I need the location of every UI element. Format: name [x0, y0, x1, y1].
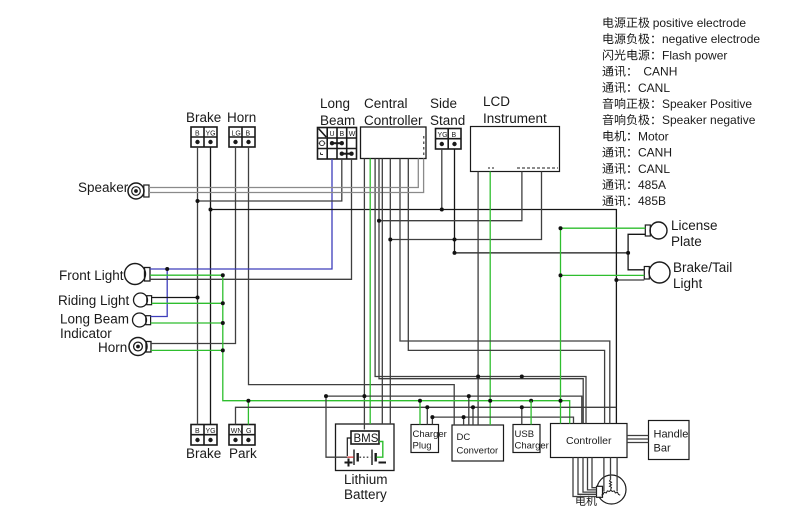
svg-text:Stand: Stand [430, 113, 465, 128]
wire park-G green drop [247, 401, 249, 425]
wire controller pin6 to controller box [400, 159, 610, 424]
wire charger plug gray [426, 407, 428, 424]
svg-text:Battery: Battery [344, 487, 387, 502]
lamp riding light [134, 293, 152, 307]
wire riding light green [152, 302, 223, 304]
wire controller pin4 power rail [379, 159, 583, 424]
svg-text:Central: Central [364, 96, 408, 111]
box controller [551, 424, 628, 458]
wire horn lamp green [151, 349, 223, 351]
svg-text:LCD: LCD [483, 94, 510, 109]
svg-text:Speaker Positive: Speaker Positive [662, 97, 752, 111]
svg-text:CANH: CANH [638, 146, 672, 160]
legend wire color key (CJK as paths) [602, 16, 760, 208]
motor M1 circle [597, 475, 626, 504]
wire charger plug to controller [432, 417, 573, 424]
svg-text:Bar: Bar [654, 443, 671, 455]
svg-text:Charger: Charger [515, 441, 549, 452]
wire controller pin2 green to battery [369, 159, 371, 425]
wire battery positive entry [326, 396, 347, 457]
connector park (pins WN, G) [229, 425, 255, 446]
svg-text:YG: YG [438, 132, 448, 139]
LCD inner pin ticks [488, 167, 496, 169]
svg-text:Side: Side [430, 96, 457, 111]
wire motor phase a [603, 458, 605, 492]
svg-text:WN: WN [231, 428, 243, 435]
box central controller U2 [361, 127, 427, 159]
wire DC pin a [463, 417, 465, 425]
svg-text:CANL: CANL [638, 162, 670, 176]
wire license plate dark + link to brake/tail [628, 234, 645, 269]
battery minus sign [379, 462, 387, 464]
wire DC pin c [472, 407, 474, 425]
svg-text:negative electrode: negative electrode [662, 32, 760, 46]
svg-text:positive electrode: positive electrode [653, 16, 747, 30]
label motor dianji [576, 496, 596, 506]
svg-text:Instrument: Instrument [483, 111, 547, 126]
wire controller pin5 to controller box [389, 159, 391, 425]
wire DC pin b [468, 396, 470, 425]
connector horn top (pins LG, B) [229, 127, 255, 147]
wire USB charger pin [521, 407, 523, 424]
svg-text:485B: 485B [638, 194, 666, 208]
svg-text:Handle: Handle [654, 429, 689, 441]
svg-text:Horn: Horn [227, 110, 256, 125]
connector long-beam switch (4x3 grid, pins U B W) [318, 128, 357, 160]
svg-text:B: B [452, 132, 457, 139]
battery negative link to BMS (green) [377, 442, 383, 458]
svg-text:CANH: CANH [643, 65, 677, 79]
svg-text:Motor: Motor [638, 129, 669, 143]
lamp license plate [645, 222, 667, 239]
wire controller pin3 rail to controller box [375, 159, 586, 424]
wire USB green drop [530, 401, 532, 425]
svg-text:Brake: Brake [186, 446, 221, 461]
svg-text:G: G [246, 428, 251, 435]
svg-text:CANL: CANL [638, 81, 670, 95]
wire front light green [150, 274, 223, 276]
svg-text:Indicator: Indicator [60, 326, 112, 341]
svg-text:Beam: Beam [320, 113, 355, 128]
wire brake-B link to long-beam-B pin [198, 159, 342, 201]
horn symbol (left) [129, 338, 151, 356]
wire controller to handle bar (3 lines) [627, 436, 649, 443]
box lithium battery [336, 424, 395, 471]
box USB charger [513, 425, 540, 453]
connector brake bottom (pins B, YG) [191, 425, 217, 446]
wire side-stand-YG drop [441, 149, 443, 210]
svg-text:Controller: Controller [566, 435, 612, 447]
wire horn-B to controller box [249, 147, 455, 425]
svg-text:B: B [246, 131, 251, 138]
connector brake top (pins B, YG) [191, 127, 217, 147]
wire side-stand-B to rear lights [455, 149, 629, 253]
box DC convertor [452, 425, 504, 461]
wire LCD pin2 green to DC convertor [489, 172, 491, 426]
wire motor hall a [588, 458, 597, 490]
wire brake/tail gray [616, 279, 644, 281]
svg-text:Riding Light: Riding Light [58, 293, 130, 308]
lamp brake/tail light [644, 262, 670, 283]
wire LCD pin3 to controller pin4 [379, 172, 522, 221]
battery plus sign [345, 459, 353, 467]
lamp front light [125, 264, 151, 285]
wire blue branch to indicator lamp [151, 269, 168, 317]
long-beam switch contacts row2 U-B [330, 141, 354, 156]
lamp long beam indicator [133, 313, 151, 327]
svg-text:DC: DC [457, 432, 471, 443]
box handle bar [649, 421, 690, 460]
svg-text:Front Light: Front Light [59, 268, 124, 283]
battery positive feed (red) [347, 456, 353, 458]
speaker symbol (left) [128, 183, 149, 199]
long-beam switch position icons [319, 141, 326, 155]
motor winding Y symbol [601, 480, 620, 496]
svg-text:Long: Long [320, 96, 350, 111]
svg-text:Controller: Controller [364, 113, 423, 128]
svg-text:B: B [195, 428, 200, 435]
svg-text:Plate: Plate [671, 234, 702, 249]
svg-text:Horn: Horn [98, 340, 127, 355]
svg-text:YG: YG [206, 428, 216, 435]
wire brake-YG vertical bus [210, 147, 212, 425]
svg-text:B: B [340, 131, 345, 138]
motor connector block [597, 486, 603, 497]
svg-text:Light: Light [673, 276, 703, 291]
wire long-beam-W to front light [150, 159, 352, 279]
svg-text:Flash power: Flash power [662, 48, 727, 62]
svg-text:Park: Park [229, 446, 257, 461]
svg-text:B: B [195, 131, 200, 138]
wire brake/tail green [561, 274, 645, 276]
wire motor phase b to winding [610, 458, 612, 480]
wire motor hall b [592, 458, 597, 488]
wire motor phase 3 [583, 458, 597, 493]
svg-text:Lithium: Lithium [344, 472, 388, 487]
svg-text:W: W [349, 131, 356, 138]
wire rear green riser [560, 228, 562, 423]
svg-text:License: License [671, 218, 718, 233]
svg-text:USB: USB [515, 429, 535, 440]
battery cell symbol [347, 438, 375, 465]
wire controller pin7 to controller box [408, 159, 604, 424]
wire controller pin4b to battery [381, 159, 383, 425]
wire indicator green [151, 322, 223, 324]
wire battery feed rail [326, 396, 582, 423]
wire LCD pin4 to controller pin5 [390, 172, 541, 240]
wire horn-LG to horn lamp [151, 147, 236, 344]
wire motor phase c [616, 458, 618, 492]
wire license plate green [561, 227, 646, 229]
central controller inner pin ticks [423, 136, 425, 158]
wire speaker line 2 [149, 159, 424, 193]
box charger plug [411, 425, 439, 453]
svg-text:Speaker negative: Speaker negative [662, 113, 756, 127]
wire riding light dark [152, 297, 198, 299]
svg-text:U: U [330, 131, 335, 138]
wire green bus vertical+horizontal [223, 275, 570, 423]
wire charger plug green [419, 401, 421, 425]
svg-text:485A: 485A [638, 178, 666, 192]
svg-text:Charger: Charger [413, 429, 447, 440]
wire ground net horizontal to controller [211, 210, 617, 424]
svg-text:BMS: BMS [354, 433, 379, 445]
svg-text:Brake: Brake [186, 110, 221, 125]
wire controller pin1 to BMS [363, 159, 365, 430]
connector side stand (pins YG, B) [436, 129, 462, 150]
wire motor phase 1 [573, 458, 597, 497]
svg-text:Brake/Tail: Brake/Tail [673, 260, 732, 275]
box BMS [351, 431, 379, 444]
wire long-beam-U blue to front light [150, 159, 332, 269]
svg-text:Long Beam: Long Beam [60, 312, 129, 327]
svg-text:YG: YG [206, 131, 216, 138]
svg-text:Speaker: Speaker [78, 180, 129, 195]
wire motor phase 2 [578, 458, 597, 495]
svg-text:LG: LG [232, 131, 241, 138]
svg-text:Plug: Plug [413, 441, 432, 452]
wire speaker line 1 [149, 159, 418, 188]
wire park-WN rail [236, 407, 617, 424]
box LCD instrument [471, 127, 560, 172]
svg-text:Convertor: Convertor [457, 446, 499, 457]
wire LCD pin1 through to DC convertor [477, 172, 479, 426]
wire brake-B vertical bus [197, 147, 199, 425]
